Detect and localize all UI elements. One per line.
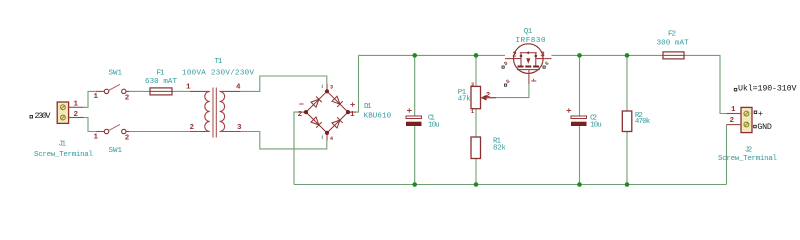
svg-text:GND: GND — [757, 123, 772, 132]
wire C1 bottom — [414, 126, 416, 185]
svg-text:2: 2 — [74, 111, 79, 119]
potentiometer P1 — [471, 86, 496, 108]
bridge plus mark — [350, 102, 355, 107]
Q1 pin name D — [503, 60, 509, 67]
svg-text:Screw_Terminal: Screw_Terminal — [718, 155, 777, 163]
wire J1.1 to SW1 top — [84, 91, 96, 107]
resistor R2 — [622, 111, 632, 132]
diode bottom-right — [332, 117, 343, 128]
svg-text:J2: J2 — [745, 147, 753, 155]
svg-text:1: 1 — [471, 109, 474, 115]
bridge minus mark — [299, 103, 303, 105]
Q1 pin name G — [505, 78, 511, 85]
wire R2 bottom — [626, 132, 628, 185]
wire bridge plus to top rail — [356, 55, 359, 112]
svg-text:1: 1 — [94, 93, 99, 101]
wire F2 to J2 pin1 — [689, 55, 727, 113]
svg-text:4: 4 — [330, 136, 333, 142]
bridge rectifier D1 — [298, 84, 356, 141]
junction bottom rail C2 — [577, 182, 582, 187]
svg-text:47k: 47k — [458, 95, 471, 103]
svg-text:3: 3 — [471, 82, 474, 88]
label GND — [754, 123, 772, 132]
svg-text:82k: 82k — [493, 144, 506, 152]
svg-text:2: 2 — [125, 135, 130, 143]
wire top rail left of Q1 — [359, 54, 506, 56]
svg-text:10u: 10u — [590, 122, 602, 130]
diode left-top — [311, 96, 322, 107]
svg-text:F1: F1 — [157, 70, 165, 78]
S origin square — [543, 66, 545, 68]
svg-text:IRF830: IRF830 — [516, 37, 546, 45]
wire C2 top — [579, 55, 581, 116]
svg-text:SW1: SW1 — [109, 70, 123, 78]
D origin square — [502, 66, 504, 68]
Q1 pin 1 tick — [531, 79, 536, 81]
Q1 gate stub red — [481, 97, 497, 99]
junction bottom rail C1 — [412, 182, 417, 187]
svg-text:2: 2 — [730, 117, 735, 125]
svg-text:1: 1 — [731, 106, 736, 114]
diode top-right — [332, 96, 343, 107]
wire P1 top — [475, 55, 477, 86]
wire SW1 bottom to T1 pin2 — [130, 131, 191, 133]
wire C1 top — [414, 55, 416, 116]
wire Q1 gate to P1 wiper — [496, 84, 529, 98]
bridge node bottom — [325, 131, 329, 135]
bridge node left — [304, 110, 308, 114]
svg-text:2: 2 — [512, 52, 517, 60]
svg-text:1: 1 — [74, 101, 79, 109]
transformer T1 — [190, 88, 240, 138]
wire T1 pin3 to bridge bottom — [240, 132, 326, 149]
bridge node right — [346, 110, 350, 114]
svg-text:D1: D1 — [364, 103, 372, 111]
svg-text:1: 1 — [94, 133, 99, 141]
label 230V — [30, 112, 51, 121]
junction top rail R2 — [625, 53, 630, 58]
svg-text:3: 3 — [540, 52, 545, 60]
wire R1 to bottom rail — [475, 159, 477, 185]
bridge pin 3 tick — [321, 85, 323, 89]
svg-text:Q1: Q1 — [524, 28, 533, 36]
svg-text:1: 1 — [350, 111, 355, 119]
wire bottom rail — [294, 184, 727, 186]
svg-text:100VA 230V/230V: 100VA 230V/230V — [182, 70, 254, 78]
wire Q1 pin3 to F2 — [552, 54, 659, 56]
junction top rail P1 — [474, 53, 479, 58]
svg-text:F2: F2 — [668, 31, 676, 39]
svg-text:2: 2 — [298, 111, 303, 119]
diode left-bottom — [311, 117, 322, 128]
capacitor C2 — [567, 108, 587, 126]
junction bottom rail R1 — [474, 182, 479, 187]
svg-text:230V: 230V — [35, 112, 51, 121]
wire J1.2 to SW1 bottom — [84, 118, 96, 132]
svg-text:3: 3 — [330, 84, 333, 90]
mosfet Q1 — [505, 44, 552, 84]
svg-text:J1: J1 — [59, 141, 67, 149]
switch SW1 top — [96, 84, 130, 93]
wire J2 pin2 to bottom rail — [726, 125, 728, 185]
wire bridge minus to bottom rail — [294, 112, 298, 184]
svg-text:2: 2 — [125, 95, 130, 103]
wire C2 bottom — [579, 126, 581, 185]
junction top rail C1 — [412, 53, 417, 58]
svg-text:630 mAT: 630 mAT — [145, 78, 177, 86]
wire R2 top — [626, 55, 628, 111]
svg-text:1: 1 — [186, 84, 191, 92]
wire SW1 top to F1 — [130, 90, 146, 92]
bridge pin 4 tick — [321, 136, 323, 140]
junction top rail C2 — [577, 53, 582, 58]
label Ukl — [734, 84, 796, 94]
junction bottom rail R2 — [625, 182, 630, 187]
Q1 pin name S — [544, 60, 550, 67]
bridge node top — [325, 89, 329, 93]
svg-text:+: + — [758, 110, 763, 119]
fuse F2 — [658, 52, 689, 59]
wire F1 to T1 pin1 — [177, 90, 190, 92]
svg-text:KBU610: KBU610 — [364, 113, 392, 121]
svg-text:Ukl=190-310V: Ukl=190-310V — [738, 84, 797, 94]
G origin square — [505, 84, 507, 86]
fuse F1 — [145, 88, 177, 95]
svg-text:Screw_Terminal: Screw_Terminal — [34, 151, 93, 159]
wire P1 to R1 — [475, 109, 477, 137]
screw terminal J1 — [57, 102, 83, 123]
resistor R1 — [471, 137, 481, 159]
capacitor C1 — [406, 108, 422, 126]
svg-text:SW1: SW1 — [109, 147, 123, 155]
svg-text:2: 2 — [486, 92, 491, 100]
label plus — [754, 110, 763, 119]
svg-text:T1: T1 — [215, 58, 223, 66]
svg-text:300 mAT: 300 mAT — [657, 39, 689, 47]
switch SW1 bottom — [96, 124, 130, 133]
svg-text:2: 2 — [190, 124, 195, 132]
wire T1 pin4 to bridge top — [240, 76, 326, 91]
svg-text:470k: 470k — [635, 118, 651, 126]
svg-text:3: 3 — [237, 124, 242, 132]
svg-text:4: 4 — [236, 84, 241, 92]
svg-text:10u: 10u — [428, 122, 440, 130]
screw terminal J2 — [727, 107, 753, 132]
